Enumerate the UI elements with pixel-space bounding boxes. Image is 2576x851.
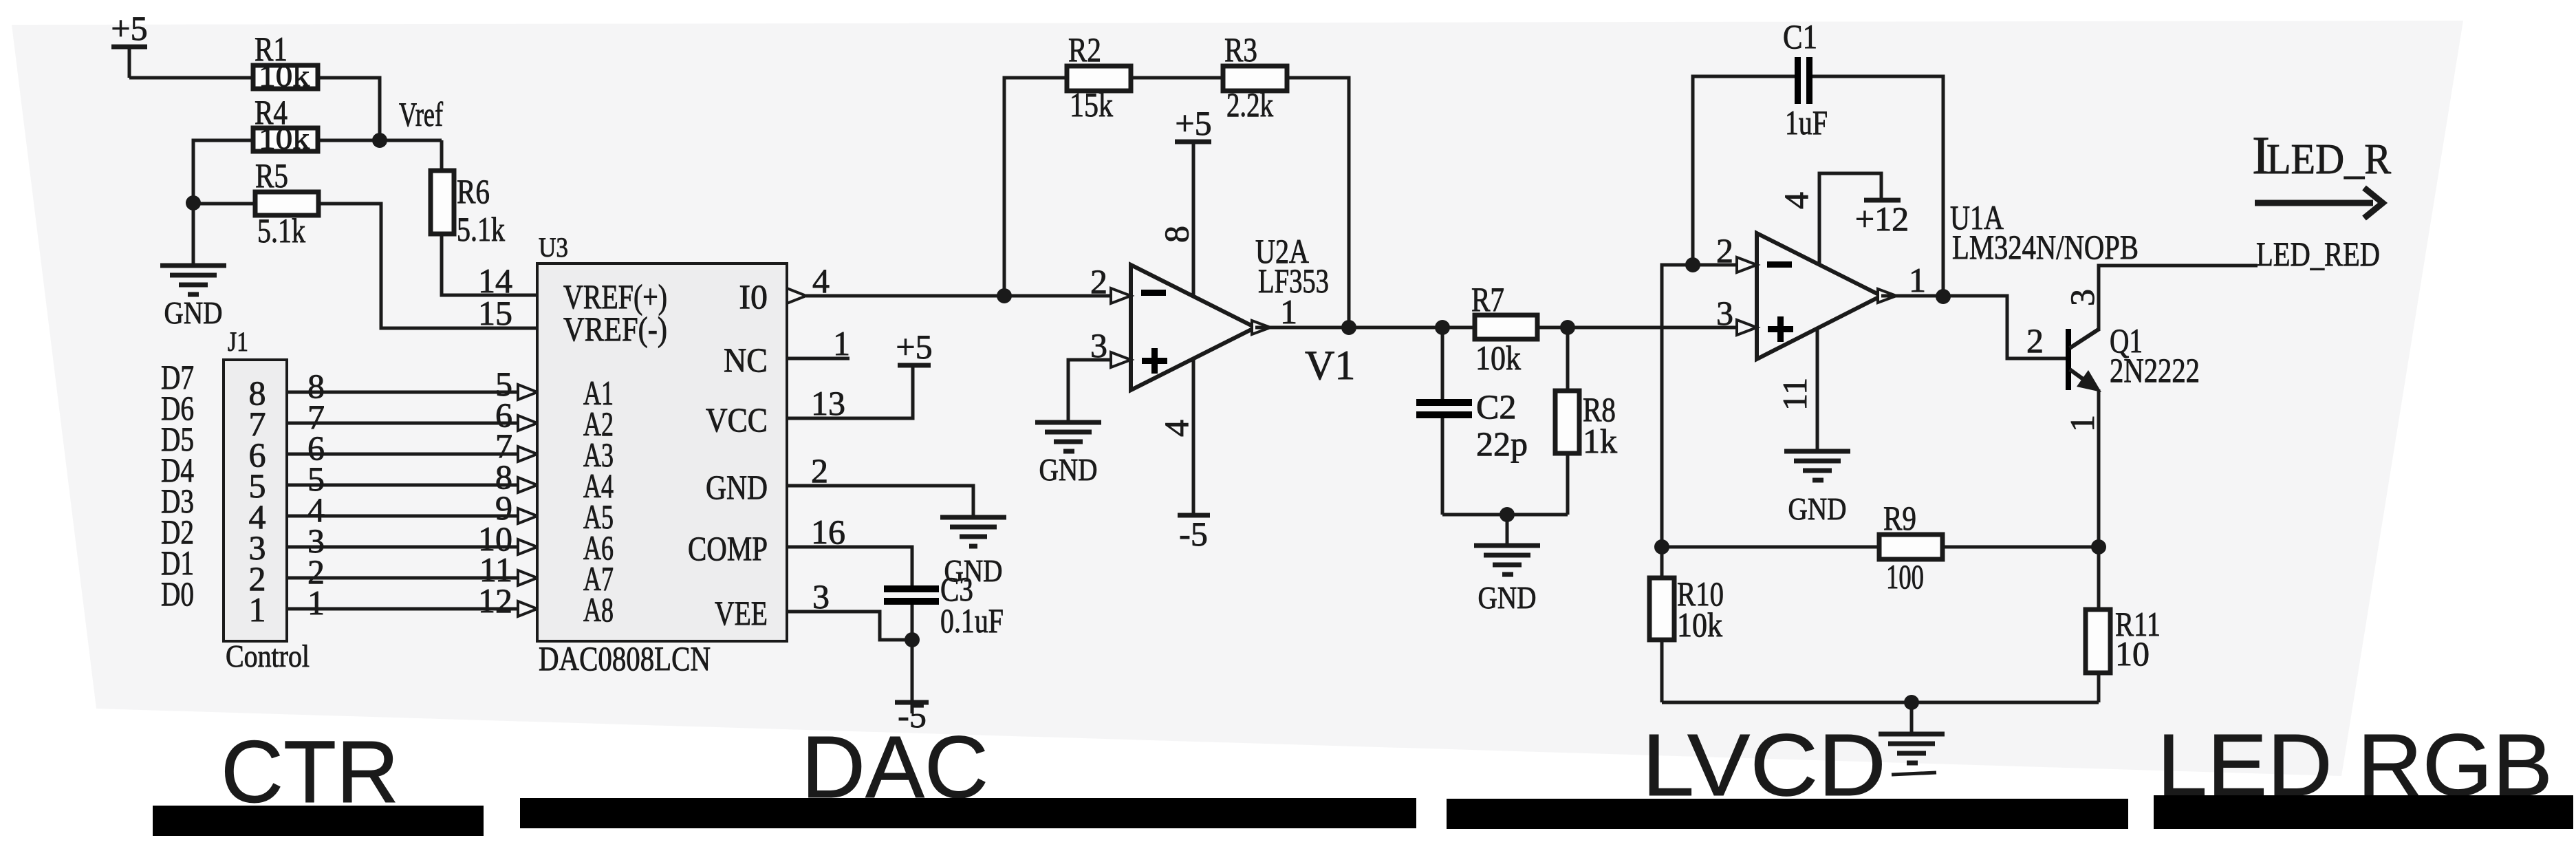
svg-text:3: 3 [2063,289,2101,306]
ground GND (left) [160,203,226,330]
wire R9 left [1662,546,1879,549]
wire R1 to Vref node [318,78,380,140]
resistor R1 10k [253,30,318,93]
svg-text:1: 1 [1909,261,1926,299]
node output junction [1341,320,1356,335]
power +12 (U1A pin 4) [1819,173,1909,268]
svg-text:22p: 22p [1476,424,1528,463]
svg-text:R7: R7 [1471,280,1504,319]
svg-text:12: 12 [478,581,512,620]
current arrow [2255,188,2383,218]
wire C3 bottom to node [911,605,914,640]
svg-text:DAC0808LCN: DAC0808LCN [539,639,711,678]
node R9/R10 junction [1654,539,1669,554]
node R7/R8 junction [1560,320,1575,335]
svg-text:15k: 15k [1070,85,1113,124]
junction node R4/R5/GND [186,195,201,211]
transistor Q1 2N2222 [2066,321,2200,392]
svg-text:5.1k: 5.1k [457,210,505,248]
ground GND (C2/R8) [1474,515,1540,615]
resistor R9 100 [1879,499,1942,596]
svg-text:A8: A8 [583,590,614,629]
svg-text:2: 2 [1716,231,1733,270]
svg-text:COMP: COMP [688,529,768,568]
svg-text:D0: D0 [161,574,194,613]
svg-text:4: 4 [1777,192,1815,209]
svg-text:C1: C1 [1783,17,1817,56]
svg-text:100: 100 [1886,557,1924,596]
wire R7 to R8 node [1537,326,1568,330]
resistor R8 1k [1555,327,1617,515]
power -5 (VEE) [895,640,929,735]
svg-text:Control: Control [226,638,310,674]
connector J1 [224,326,310,674]
wire Q1 collector to LED_RED [2099,266,2258,331]
wire VCC pin 13 to +5 [787,365,913,418]
svg-text:16: 16 [811,513,845,551]
wire COMP pin 16 to C3 [787,547,912,585]
svg-text:10k: 10k [259,59,310,93]
power +5 (top-left) [111,9,147,78]
svg-text:1k: 1k [1583,422,1617,460]
wire J1 pin4 to A5 [287,488,537,529]
section bar CTR [153,806,484,836]
power -5 (U2A pin 4) [1178,515,1210,553]
wire J1 pin5 to A4 [287,457,537,498]
svg-text:0.1uF: 0.1uF [940,601,1004,640]
wire R6 to VREF(+) pin 14 [442,234,537,295]
wire R9 right [1942,546,2099,549]
svg-text:8: 8 [1157,226,1195,243]
svg-text:R9: R9 [1883,499,1916,537]
svg-text:4: 4 [1157,420,1195,437]
svg-text:R2: R2 [1068,30,1101,69]
wire Vref node to R6 [380,139,442,142]
resistor R11 10 [2086,605,2161,702]
resistor R10 10k [1649,547,1724,702]
wire feedback left vertical [1004,78,1067,296]
resistor R3 2.2k [1223,30,1287,124]
node bottom rail GND junction [1904,695,1919,710]
wire J1 pin6 to A3 [287,427,537,467]
svg-text:1: 1 [833,324,850,363]
svg-text:LED_R: LED_R [2266,136,2392,183]
wire J1 pin7 to A2 [287,396,537,436]
node I0/feedback junction [997,288,1012,303]
svg-text:GND: GND [706,468,768,506]
wire bottom rail R10 to R11 [1662,701,2099,704]
current label ILED_R [2252,125,2392,185]
node VEE/C3 [905,632,920,647]
svg-text:LM324N/NOPB: LM324N/NOPB [1952,228,2139,266]
node C1 left junction [1685,257,1700,272]
svg-text:10k: 10k [259,122,310,155]
wire J1 pin1 to A8 [287,581,537,622]
svg-text:+5: +5 [1175,104,1211,142]
svg-text:1uF: 1uF [1785,103,1828,142]
capacitor C3 0.1uF [884,570,1004,640]
node V1/C2 junction [1435,320,1450,335]
wire U2A pin 4 to -5 [1192,358,1195,515]
svg-text:R3: R3 [1224,30,1257,69]
svg-text:I0: I0 [739,277,768,316]
svg-text:+5: +5 [896,327,932,366]
wire Q1 emitter to R11 [2097,389,2101,610]
resistor R6 5.1k [431,171,505,248]
svg-text:LED_RED: LED_RED [2256,235,2380,273]
svg-text:R6: R6 [457,172,490,211]
svg-text:U3: U3 [539,232,568,263]
svg-text:3: 3 [1090,326,1107,365]
node C1 right junction [1936,289,1951,304]
wire R2 to R3 [1131,76,1223,80]
resistor R4 10k [253,93,318,155]
svg-text:GND: GND [1039,452,1098,487]
node bottom rail junction [1500,507,1515,522]
section bar LVCD [1447,799,2128,829]
wire R8 node to U1A pin 3 [1568,326,1740,330]
svg-text:2: 2 [2026,321,2044,360]
section bar LED RGB [2154,795,2573,829]
svg-text:+12: +12 [1855,200,1909,238]
svg-text:10: 10 [2115,634,2150,673]
ground GND (U1A) [1784,451,1850,526]
svg-text:2: 2 [1090,262,1107,301]
svg-text:4: 4 [812,261,830,300]
capacitor C1 1uF [1693,17,1943,297]
wire I0 to U2A pin 2 [806,294,1114,298]
resistor R2 15k [1067,30,1131,124]
pin 4 I0 output arrow [787,288,806,303]
svg-text:1: 1 [2063,415,2101,432]
svg-text:VREF(-): VREF(-) [563,310,667,348]
DAC U3 DAC0808LCN [537,232,787,678]
wire GND pin 2 [787,486,973,515]
wire R4 to Vref node [318,139,380,142]
ground GND (DAC) [940,517,1006,588]
wire J1 pin2 to A7 [287,550,537,591]
svg-text:NC: NC [724,341,768,379]
ground GND (bottom rail) [1879,702,1945,775]
power +5 (VCC) [896,327,932,366]
wire U1A output to Q1 base [1881,296,2066,358]
svg-text:R5: R5 [255,156,288,195]
svg-text:3: 3 [1716,294,1733,332]
capacitor C2 22p [1416,327,1528,515]
wire U2A pin 3 to ground [1068,360,1114,422]
wire J1 pin3 to A6 [287,519,537,560]
svg-text:+5: +5 [111,9,147,47]
op-amp U2A LF353 [1111,232,1329,390]
svg-text:5.1k: 5.1k [257,211,305,250]
resistor R7 10k [1471,280,1537,377]
ground GND (U2A +) [1035,422,1101,487]
wire U1A pin 11 to ground [1816,323,1819,451]
svg-text:1: 1 [1280,292,1297,331]
wire C2/R8 bottom rail [1442,513,1568,517]
wire U2A output to R7 [1255,326,1475,330]
wire NC pin 1 [787,357,849,360]
wire +5 to R1 [129,76,253,80]
svg-text:GND: GND [164,295,223,330]
section bar DAC [520,798,1416,828]
svg-text:13: 13 [811,384,845,422]
svg-text:11: 11 [1775,378,1814,411]
wire node to R5 [193,202,255,206]
svg-text:GND: GND [1788,491,1847,526]
svg-text:VCC: VCC [706,400,768,439]
resistor R5 5.1k [255,156,318,250]
power +5 (U2A pin 8) [1175,104,1212,296]
svg-text:3: 3 [812,577,830,616]
node emitter/R9 junction [2091,539,2106,554]
svg-text:Vref: Vref [399,95,443,133]
svg-text:1: 1 [249,590,266,629]
svg-text:V1: V1 [1305,343,1355,388]
wire R5 to VREF(-) pin 15 [318,204,537,328]
svg-text:C2: C2 [1476,387,1516,426]
svg-text:15: 15 [478,294,512,332]
svg-text:VEE: VEE [715,594,768,632]
svg-text:-5: -5 [1179,515,1208,553]
node Vref [372,133,387,148]
wire VEE pin 3 to node [787,612,912,640]
svg-text:J1: J1 [228,326,248,357]
svg-text:10k: 10k [1475,338,1521,377]
wire R4 left down to node [193,140,253,203]
svg-text:2: 2 [811,451,828,490]
svg-text:GND: GND [1478,580,1537,615]
svg-text:2N2222: 2N2222 [2110,351,2200,389]
op-amp U1A LM324N/NOPB [1737,198,2139,359]
svg-text:1: 1 [307,583,325,622]
svg-text:10k: 10k [1677,605,1722,644]
svg-text:2.2k: 2.2k [1226,85,1273,124]
wire R6 top [440,140,444,171]
wire J1 pin8 to A1 [287,365,537,405]
wire U1A pin 2 net [1662,265,1740,547]
wire R3 to output node [1287,78,1349,327]
